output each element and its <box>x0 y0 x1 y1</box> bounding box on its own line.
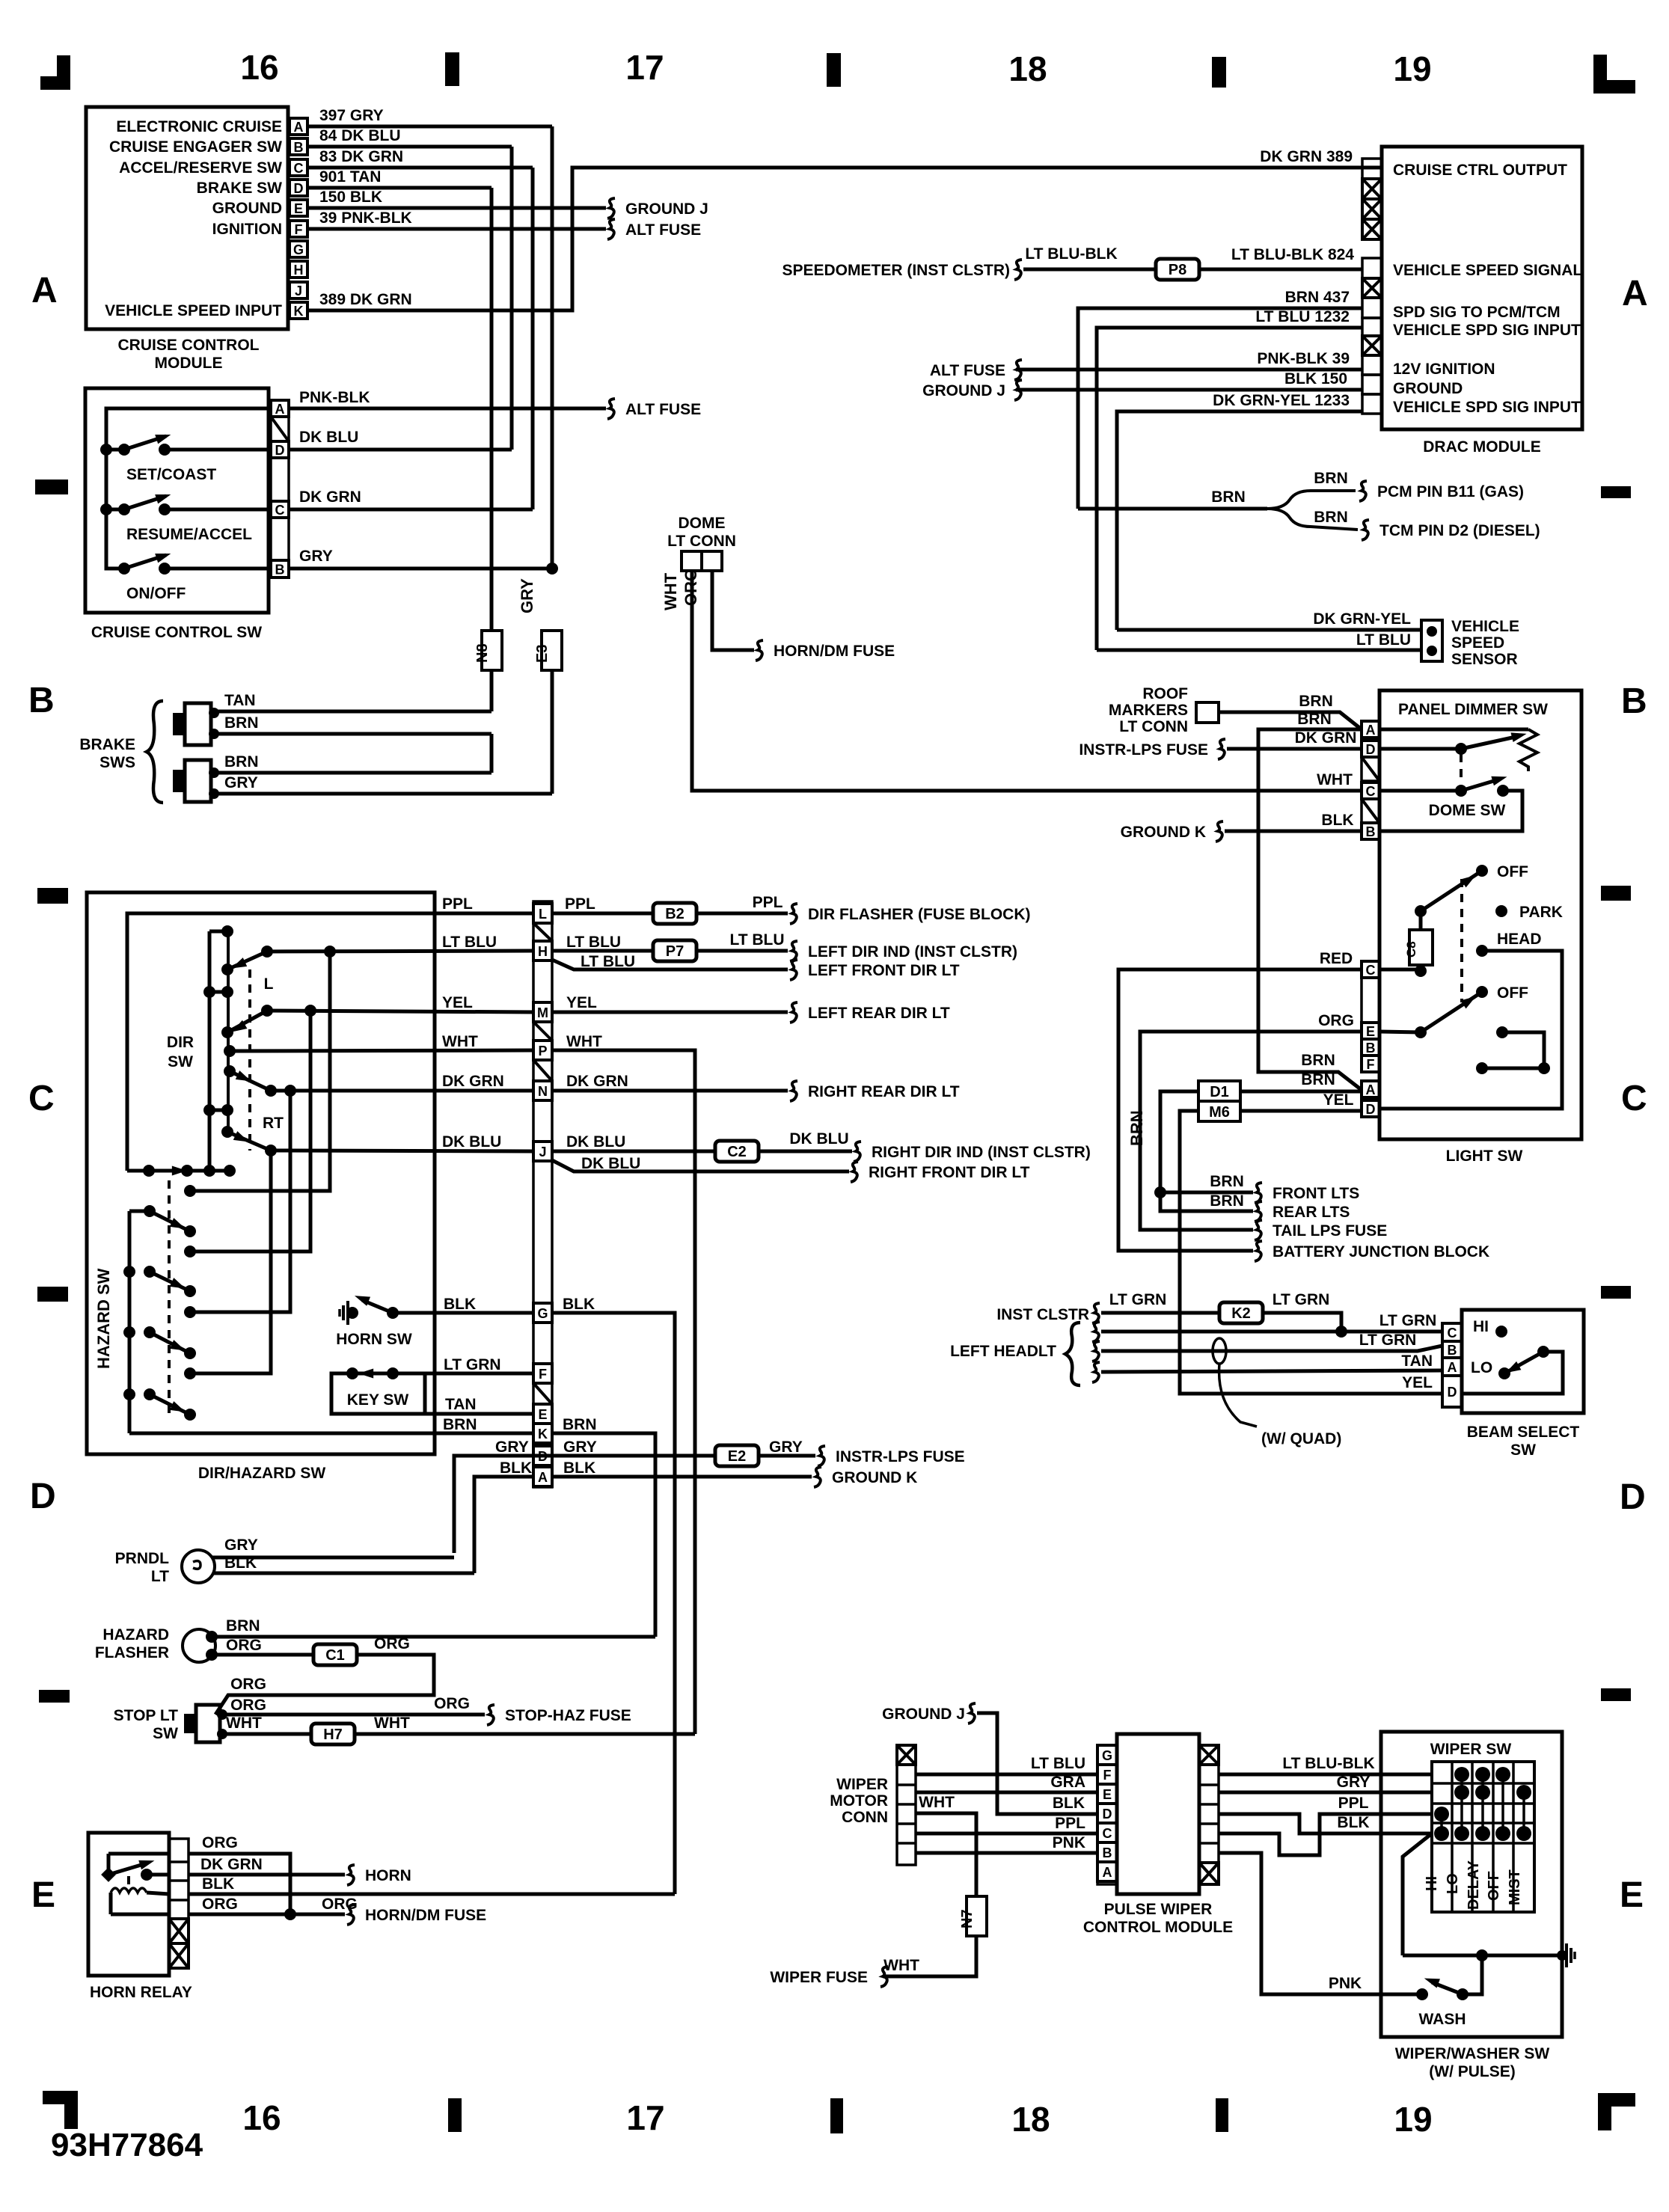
wire BLK prndl riser to pin A and ground K <box>474 1477 533 1573</box>
wiper/washer sw box <box>1381 1732 1562 2037</box>
svg-text:D: D <box>1366 1102 1376 1117</box>
svg-text:ELECTRONIC CRUISE: ELECTRONIC CRUISE <box>116 118 282 135</box>
dir sw contact column <box>227 931 230 1132</box>
terminal TAIL LPS FUSE <box>1255 1220 1262 1240</box>
dir/hazard connector pin H <box>533 941 552 961</box>
wire BRN branch to TCM <box>1267 509 1358 530</box>
svg-text:D: D <box>30 1477 56 1516</box>
svg-text:BRN: BRN <box>224 714 259 732</box>
svg-text:STOP LT: STOP LT <box>114 1707 179 1724</box>
svg-text:DIR/HAZARD SW: DIR/HAZARD SW <box>198 1465 325 1482</box>
svg-text:LEFT HEADLT: LEFT HEADLT <box>950 1343 1056 1360</box>
hazard arm 3 <box>123 1326 135 1338</box>
svg-text:BEAM SELECT: BEAM SELECT <box>1467 1424 1580 1441</box>
svg-text:WIPER/WASHER SW: WIPER/WASHER SW <box>1395 2045 1550 2062</box>
svg-text:GROUND: GROUND <box>212 200 282 217</box>
wire BRN 437 <box>1078 308 1362 509</box>
svg-text:84 DK BLU: 84 DK BLU <box>319 127 401 144</box>
svg-text:BRAKE: BRAKE <box>79 736 135 753</box>
svg-text:GRY: GRY <box>224 774 258 791</box>
wire PNK-BLK 39 to ALT FUSE <box>1016 368 1362 372</box>
svg-text:D: D <box>1448 1385 1457 1400</box>
pulse wiper crossed cells <box>1199 1745 1219 1765</box>
page corner mark top-left <box>57 55 70 88</box>
wire DK BLU vertical from pin B down to cruise sw D <box>510 147 514 450</box>
wire ORG C1 to stop lt sw <box>215 1655 434 1715</box>
svg-text:LT GRN: LT GRN <box>1273 1291 1330 1308</box>
hazard flasher <box>183 1629 215 1662</box>
wire LT BLU pin H branch to left front dir lt <box>552 960 788 969</box>
dir sw YEL arm <box>221 1026 233 1038</box>
svg-text:PPL: PPL <box>1055 1815 1085 1832</box>
svg-text:K2: K2 <box>1231 1305 1251 1322</box>
svg-text:150 BLK: 150 BLK <box>319 189 382 206</box>
terminal RIGHT DIR IND (INST CLSTR) <box>854 1142 861 1162</box>
wire light sw E to arm <box>1379 1032 1421 1032</box>
svg-text:WHT: WHT <box>566 1033 602 1050</box>
panel dimmer pin B <box>1362 823 1379 839</box>
drac crossed cell 2 <box>1362 278 1382 298</box>
terminal LEFT REAR DIR LT <box>790 1002 797 1023</box>
svg-text:DK BLU: DK BLU <box>581 1155 640 1172</box>
cruise control module pin A <box>290 118 307 135</box>
wire BRN to FRONT LTS <box>1160 1191 1253 1195</box>
terminal GROUND K 2 <box>814 1467 821 1487</box>
page corner mark bottom-left <box>43 2091 78 2104</box>
svg-text:B: B <box>28 681 55 720</box>
wire BLK pulse wiper D to wiper sw <box>1219 1814 1432 1833</box>
svg-text:DIR FLASHER (FUSE BLOCK): DIR FLASHER (FUSE BLOCK) <box>808 906 1031 923</box>
svg-text:C: C <box>275 503 285 518</box>
svg-text:GROUND K: GROUND K <box>832 1469 917 1486</box>
svg-text:K: K <box>294 304 304 319</box>
terminal DIR FLASHER (FUSE BLOCK) <box>790 904 797 924</box>
wire BLK horn relay to pin G riser <box>189 1893 675 1896</box>
svg-text:WHT: WHT <box>442 1033 478 1050</box>
svg-text:HAZARD: HAZARD <box>102 1626 169 1643</box>
svg-text:LT BLU: LT BLU <box>566 934 621 951</box>
panel dimmer pin D <box>1362 741 1379 757</box>
svg-text:GROUND J: GROUND J <box>625 200 708 218</box>
svg-text:E: E <box>1620 1875 1644 1915</box>
svg-text:WHT: WHT <box>919 1794 955 1811</box>
horn relay pin strip <box>169 1839 189 1968</box>
svg-text:PPL: PPL <box>442 895 473 913</box>
terminal INSTR-LPS FUSE 2 <box>818 1446 825 1466</box>
cruise sw pin C <box>271 501 289 518</box>
svg-text:KEY SW: KEY SW <box>347 1391 409 1409</box>
key sw contacts <box>346 1367 358 1379</box>
svg-text:CRUISE ENGAGER SW: CRUISE ENGAGER SW <box>109 138 282 156</box>
svg-text:D: D <box>275 443 285 458</box>
svg-text:ROOF: ROOF <box>1142 685 1188 702</box>
dir sw L contact pair <box>209 990 227 994</box>
svg-text:RIGHT REAR DIR LT: RIGHT REAR DIR LT <box>808 1083 960 1100</box>
wire LT GRN row2 to beam select C <box>1101 1330 1442 1334</box>
svg-text:MOTOR: MOTOR <box>830 1792 888 1810</box>
svg-text:19: 19 <box>1394 2100 1432 2139</box>
grid tick top 16/17 <box>445 52 459 86</box>
svg-text:SET/COAST: SET/COAST <box>126 466 216 483</box>
grid tick right D/E <box>1601 1688 1631 1701</box>
roof markers lt conn connector <box>1196 702 1219 723</box>
svg-text:A: A <box>275 402 285 417</box>
svg-text:RIGHT DIR IND (INST CLSTR): RIGHT DIR IND (INST CLSTR) <box>872 1144 1091 1161</box>
svg-text:BRN: BRN <box>443 1416 477 1433</box>
dir/hazard connector pin A <box>533 1467 552 1486</box>
cruise control sw box <box>85 388 269 613</box>
svg-text:DK BLU: DK BLU <box>566 1133 625 1151</box>
key sw box <box>331 1373 425 1414</box>
wire wash common <box>1403 1954 1562 1958</box>
terminal HORN/DM FUSE <box>756 640 763 661</box>
horn sw <box>346 1307 358 1319</box>
svg-text:A: A <box>538 1470 548 1485</box>
terminal GROUND J <box>607 198 615 218</box>
svg-text:HORN: HORN <box>365 1867 411 1884</box>
light sw pin A <box>1362 1081 1379 1097</box>
svg-text:SPD SIG TO PCM/TCM: SPD SIG TO PCM/TCM <box>1393 304 1561 321</box>
svg-text:DK GRN: DK GRN <box>566 1073 628 1090</box>
wire BRN to pcm/tcm split <box>1078 507 1267 511</box>
wire WHT N7 to wiper fuse <box>883 1936 976 1976</box>
wire light sw C to C8 <box>1379 968 1421 972</box>
svg-text:C: C <box>1366 963 1376 978</box>
svg-text:VEHICLE: VEHICLE <box>1451 618 1519 635</box>
svg-text:WHT: WHT <box>374 1715 410 1732</box>
svg-text:DELAY: DELAY <box>1466 1860 1482 1910</box>
hazard sw left bus <box>128 1211 132 1433</box>
beam select pin A <box>1442 1358 1462 1376</box>
wire RED to light sw C <box>1118 969 1362 1251</box>
svg-text:BLK: BLK <box>444 1296 476 1313</box>
svg-text:LT BLU-BLK: LT BLU-BLK <box>1282 1755 1374 1772</box>
svg-text:SPEEDOMETER (INST CLSTR): SPEEDOMETER (INST CLSTR) <box>782 262 1010 279</box>
svg-text:DOME SW: DOME SW <box>1429 802 1506 819</box>
cruise control module pin C <box>290 159 307 176</box>
svg-text:PNK-BLK: PNK-BLK <box>299 389 370 406</box>
wire LT BLU-BLK speedometer to P8 <box>1023 268 1156 272</box>
hazard sw DK GRN pickoff <box>184 1306 196 1318</box>
wire BLK 150 to GROUND J <box>1016 388 1362 392</box>
panel dimmer rheostat wire pin A <box>1379 728 1528 732</box>
wire ORG hazard flasher to C1 <box>212 1653 313 1657</box>
svg-text:GROUND K: GROUND K <box>1121 824 1206 841</box>
cruise control module pin K <box>290 302 307 319</box>
svg-text:E2: E2 <box>728 1448 746 1465</box>
svg-text:C: C <box>1103 1826 1112 1841</box>
terminal RIGHT REAR DIR LT <box>790 1081 797 1101</box>
wire BLK horn sw to pin G <box>393 1311 533 1315</box>
wire LT BLU pin H to P7 <box>552 949 653 953</box>
terminal RIGHT FRONT DIR LT <box>851 1162 858 1182</box>
hazard arm 2 <box>123 1266 135 1278</box>
svg-text:LT CONN: LT CONN <box>667 533 736 550</box>
wire 389 DK GRN from pin K to DRAC module <box>307 168 1382 310</box>
terminal headlt row4 <box>1092 1362 1100 1382</box>
switch RESUME/ACCEL <box>100 503 112 515</box>
wire LT BLU to speed sensor <box>1097 649 1421 652</box>
wire LT GRN K2 jog to row2 <box>1263 1313 1341 1332</box>
beam select pin D <box>1442 1376 1462 1407</box>
svg-text:BRAKE SW: BRAKE SW <box>197 180 283 197</box>
svg-text:ON/OFF: ON/OFF <box>126 585 186 602</box>
panel dimmer pin A <box>1362 721 1379 738</box>
svg-text:BRN: BRN <box>1301 1052 1335 1069</box>
page corner mark bottom-right <box>1598 2093 1635 2107</box>
svg-text:LT GRN: LT GRN <box>444 1356 501 1373</box>
cruise control module pin B <box>290 138 307 155</box>
svg-text:B2: B2 <box>665 906 685 922</box>
wire HEAD to pin D <box>1379 951 1562 1109</box>
svg-text:H: H <box>294 263 304 278</box>
svg-text:G: G <box>293 242 304 257</box>
wire DK GRN-YEL to speed sensor <box>1117 628 1421 632</box>
svg-text:E: E <box>1366 1024 1375 1039</box>
wire DK GRN vertical from pin C down to cruise sw C <box>531 168 535 509</box>
cruise control module pin E <box>290 200 307 216</box>
svg-text:SW: SW <box>153 1725 178 1742</box>
svg-text:CONTROL MODULE: CONTROL MODULE <box>1083 1919 1233 1936</box>
wire LT BLU motor conn to pulse wiper F <box>916 1773 1097 1777</box>
svg-text:WHT: WHT <box>1317 771 1353 788</box>
svg-text:D: D <box>1620 1477 1646 1517</box>
svg-text:VEHICLE SPD SIG INPUT: VEHICLE SPD SIG INPUT <box>1393 322 1581 339</box>
svg-text:DK BLU: DK BLU <box>442 1133 501 1151</box>
dir/hazard connector pin D <box>533 1446 552 1465</box>
wire YEL dir sw to pin M <box>267 1011 533 1012</box>
cruise control module pin H <box>290 261 307 278</box>
wire 84 DK BLU from pin B <box>307 145 512 149</box>
svg-text:BLK: BLK <box>224 1554 257 1572</box>
svg-text:D: D <box>294 181 304 196</box>
terminal headlt row3 <box>1092 1341 1100 1361</box>
wire DK BLU dir sw to pin J <box>271 1151 533 1151</box>
light sw PARK contact <box>1495 905 1507 917</box>
horn relay coil <box>111 1888 147 1893</box>
panel dimmer wiper arm from pin D <box>1379 747 1461 751</box>
svg-text:HI: HI <box>1424 1876 1440 1891</box>
svg-text:TAIL LPS FUSE: TAIL LPS FUSE <box>1273 1222 1387 1240</box>
wire BRN D1 to light sw A <box>1240 1090 1362 1094</box>
dir/hazard connector strip <box>533 901 552 1487</box>
svg-text:TCM PIN D2 (DIESEL): TCM PIN D2 (DIESEL) <box>1379 522 1540 539</box>
wire GRY brake sw2 to E3 riser <box>214 792 552 796</box>
connector E3 <box>542 631 562 670</box>
wire GRY vertical from pin A down to E3 <box>551 126 554 569</box>
svg-text:WIPER FUSE: WIPER FUSE <box>770 1969 868 1986</box>
svg-text:B: B <box>275 563 285 577</box>
connector P8 <box>1156 259 1199 280</box>
svg-text:GRY: GRY <box>769 1439 803 1456</box>
svg-text:LEFT REAR DIR LT: LEFT REAR DIR LT <box>808 1005 950 1022</box>
svg-text:D: D <box>1366 742 1376 757</box>
wire DK GRN pin N to right rear dir lt <box>552 1089 788 1093</box>
dir sw contact bus <box>208 931 212 1171</box>
light sw pin F <box>1362 1056 1379 1072</box>
panel dimmer pin C <box>1362 782 1379 799</box>
dir sw RT contact pair <box>209 1109 227 1112</box>
svg-text:18: 18 <box>1008 49 1047 88</box>
svg-text:LT BLU: LT BLU <box>581 953 635 970</box>
svg-text:OFF: OFF <box>1486 1871 1502 1901</box>
light sw pin B <box>1362 1039 1379 1056</box>
svg-text:E: E <box>31 1875 55 1915</box>
svg-text:E: E <box>1103 1787 1112 1802</box>
svg-text:HORN/DM FUSE: HORN/DM FUSE <box>365 1907 486 1924</box>
grid tick left C/D <box>37 1287 68 1302</box>
svg-text:SWS: SWS <box>99 754 135 771</box>
svg-text:DK GRN: DK GRN <box>1295 729 1357 747</box>
beam select wire to pin D <box>1462 1352 1563 1394</box>
svg-text:HORN/DM FUSE: HORN/DM FUSE <box>774 643 895 660</box>
svg-text:C: C <box>1621 1079 1647 1118</box>
grid tick right A/B <box>1601 486 1631 498</box>
dir/hazard connector pin M <box>533 1002 552 1022</box>
svg-text:C: C <box>1366 784 1376 799</box>
wire ORG to light sw E <box>1140 1032 1362 1230</box>
dir sw WHT contact <box>224 1045 236 1057</box>
svg-text:VEHICLE SPEED SIGNAL: VEHICLE SPEED SIGNAL <box>1393 262 1582 279</box>
svg-text:PPL: PPL <box>565 895 595 913</box>
grid tick right C/D <box>1601 1286 1631 1299</box>
svg-text:N: N <box>538 1084 548 1099</box>
hazard arm 1 <box>144 1205 156 1217</box>
wire wash contact riser <box>1465 1955 1482 1994</box>
svg-text:DK GRN: DK GRN <box>442 1073 504 1090</box>
wire DK GRN dir sw to pin N <box>271 1089 533 1093</box>
wire TAN N8 down to brake sw <box>490 670 494 711</box>
svg-text:PANEL DIMMER SW: PANEL DIMMER SW <box>1398 701 1548 718</box>
svg-text:C: C <box>1448 1326 1457 1341</box>
svg-text:INSTR-LPS FUSE: INSTR-LPS FUSE <box>836 1448 965 1465</box>
svg-text:B: B <box>1621 681 1647 721</box>
svg-text:18: 18 <box>1011 2100 1050 2139</box>
panel dimmer mech dashed link <box>1460 754 1463 782</box>
wire GRY E2 to instr-lps fuse <box>759 1454 815 1458</box>
connector P7 <box>653 940 696 961</box>
svg-text:SENSOR: SENSOR <box>1451 651 1518 668</box>
cruise sw slash cell <box>271 417 289 441</box>
svg-text:YEL: YEL <box>1402 1374 1433 1391</box>
dir/hazard connector pin P <box>533 1041 552 1060</box>
wire TAN brake sw1 <box>214 710 491 714</box>
terminal headlt row2 <box>1092 1322 1100 1342</box>
svg-text:BRN: BRN <box>1210 1192 1244 1210</box>
left headlt brace <box>1065 1323 1080 1385</box>
svg-text:ORG: ORG <box>202 1834 238 1851</box>
panel dimmer / light sw box <box>1379 690 1581 1139</box>
light sw pin D <box>1362 1100 1379 1117</box>
svg-text:CRUISE CONTROL: CRUISE CONTROL <box>118 337 260 354</box>
wiper motor connector strip <box>897 1745 916 1865</box>
dir/hazard connector pin J <box>533 1142 552 1161</box>
svg-text:GROUND J: GROUND J <box>922 382 1005 399</box>
wire WHT dir sw to pin P <box>230 1050 533 1051</box>
svg-text:BATTERY JUNCTION BLOCK: BATTERY JUNCTION BLOCK <box>1273 1243 1489 1260</box>
svg-text:WHT: WHT <box>226 1715 262 1732</box>
wire PNK motor conn to pulse wiper B <box>916 1851 1097 1855</box>
svg-text:19: 19 <box>1393 49 1431 88</box>
dir/hazard connector pin G <box>533 1303 552 1323</box>
wire LT BLU 1232 <box>1097 328 1362 650</box>
svg-text:LT GRN: LT GRN <box>1109 1291 1167 1308</box>
panel dimmer slash cell 1 <box>1362 757 1379 781</box>
cruise sw pin A <box>271 400 289 417</box>
svg-text:CRUISE CTRL OUTPUT: CRUISE CTRL OUTPUT <box>1393 162 1567 179</box>
wire BLK to panel dimmer B <box>1225 830 1362 833</box>
svg-text:J: J <box>295 284 302 298</box>
svg-text:A: A <box>1622 274 1648 313</box>
svg-text:BRN: BRN <box>1210 1173 1244 1190</box>
svg-text:901 TAN: 901 TAN <box>319 168 381 186</box>
svg-text:PPL: PPL <box>1338 1795 1369 1812</box>
horn relay box <box>88 1833 169 1976</box>
svg-text:E3: E3 <box>534 645 551 663</box>
svg-text:ORG: ORG <box>434 1695 470 1712</box>
svg-text:L: L <box>264 975 274 993</box>
drac pin cell veh spd sig input 2 <box>1362 394 1382 414</box>
svg-text:WIPER SW: WIPER SW <box>1430 1741 1512 1758</box>
svg-text:GRY: GRY <box>518 578 536 613</box>
cruise sw pin B <box>271 560 289 577</box>
wire WHT motor conn to N7 <box>916 1813 976 1896</box>
drac module box <box>1382 147 1582 429</box>
wire BLK wiper sw to wash riser <box>1403 1833 1432 1955</box>
light sw arm lower <box>1421 992 1482 1032</box>
svg-text:J: J <box>539 1145 546 1159</box>
svg-text:LIGHT SW: LIGHT SW <box>1446 1148 1523 1165</box>
svg-text:BLK 150: BLK 150 <box>1284 370 1347 387</box>
light sw lower right contact <box>1496 1026 1508 1038</box>
wire BRN branch to PCM <box>1267 491 1356 509</box>
wire YEL pin M to left rear dir lt <box>552 1011 788 1014</box>
svg-text:MODULE: MODULE <box>155 355 223 372</box>
svg-text:L: L <box>539 907 547 922</box>
terminal ALT FUSE 2 <box>607 399 615 419</box>
wire TAN row4 to beam select A <box>1101 1370 1442 1372</box>
wire BRN brake sw2 <box>214 771 491 775</box>
svg-text:ORG: ORG <box>1318 1012 1354 1029</box>
hazard sw LT BLU pickoff <box>184 1185 196 1197</box>
svg-text:83 DK GRN: 83 DK GRN <box>319 148 403 165</box>
connector E2 <box>715 1445 759 1466</box>
pulse wiper pin A <box>1097 1862 1117 1881</box>
drac pin cell cruise ctrl output <box>1362 159 1382 179</box>
wire BLK ground J to pulse wiper D <box>977 1713 1097 1814</box>
svg-text:M6: M6 <box>1209 1104 1230 1121</box>
wire LT BLU dir sw to pin H <box>267 951 533 952</box>
wire PNK pulse wiper B to wash sw <box>1219 1853 1417 1994</box>
svg-text:16: 16 <box>240 48 278 87</box>
svg-text:WIPER: WIPER <box>836 1776 888 1793</box>
svg-text:BRN: BRN <box>226 1617 260 1635</box>
svg-text:PNK-BLK 39: PNK-BLK 39 <box>1257 350 1350 367</box>
svg-text:HI: HI <box>1473 1318 1489 1335</box>
dome sw loop to pin B <box>1379 791 1522 831</box>
terminal TCM PIN D2 (DIESEL) <box>1362 520 1369 540</box>
horn sw ground <box>347 1308 358 1318</box>
svg-text:ORG: ORG <box>230 1676 266 1693</box>
svg-text:FLASHER: FLASHER <box>95 1644 169 1661</box>
svg-text:P: P <box>538 1044 547 1058</box>
svg-text:GROUND: GROUND <box>1393 380 1463 397</box>
cruise control module pin J <box>290 282 307 298</box>
wire BRN hazard bus to pin K <box>129 1432 533 1436</box>
wiper sw grid contacts <box>1454 1767 1469 1782</box>
terminal WIPER FUSE <box>881 1967 888 1987</box>
svg-text:ORG: ORG <box>202 1896 238 1913</box>
